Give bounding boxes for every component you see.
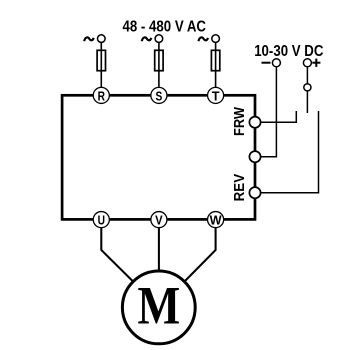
svg-text:T: T xyxy=(212,88,220,103)
svg-text:W: W xyxy=(210,213,223,228)
svg-text:10-30 V DC: 10-30 V DC xyxy=(254,43,324,60)
svg-text:R: R xyxy=(98,88,105,103)
svg-text:FRW: FRW xyxy=(231,106,248,136)
svg-text:V: V xyxy=(155,213,163,228)
svg-text:U: U xyxy=(98,213,105,228)
svg-text:S: S xyxy=(156,88,163,103)
svg-text:M: M xyxy=(137,275,180,336)
svg-text:48 - 480 V AC: 48 - 480 V AC xyxy=(123,19,207,36)
svg-text:REV: REV xyxy=(231,174,248,202)
